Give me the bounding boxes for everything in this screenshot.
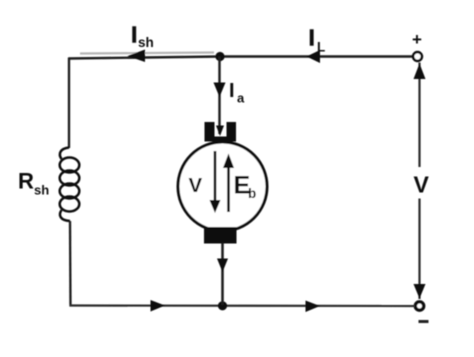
node bottom junction [218,301,227,310]
svg-text:a: a [237,91,245,106]
svg-text:I: I [229,80,235,102]
wire top-left segment [69,53,221,59]
node top junction [215,52,224,61]
svg-text:+: + [412,30,422,49]
terminal negative [415,302,423,310]
svg-text:V: V [414,172,430,198]
arrow bottom-right [306,301,321,313]
arrow down toward - [414,284,426,299]
svg-text:sh: sh [34,183,49,198]
armature M1 motor body [178,142,267,231]
wire left lower [69,221,72,307]
brush top [205,122,237,142]
wire right upper [418,63,420,168]
arrow up toward + [414,64,426,80]
wire left upper [68,58,70,149]
arrow bottom-left [151,300,166,312]
label minus [419,320,429,323]
inductor R_sh shunt field coil [60,148,80,222]
svg-text:V: V [189,174,203,197]
arrow I_sh [128,50,146,63]
label R_sh [18,169,49,198]
svg-text:sh: sh [138,35,154,50]
wire right lower [418,199,420,300]
wire bottom [70,304,416,307]
arrow I_L [307,50,321,63]
svg-text:L: L [317,40,325,55]
label I_sh [131,22,154,51]
arrow into top brush [216,126,224,137]
arrow Eb direction up [223,154,234,213]
wire armature bottom [221,243,224,305]
terminal positive [413,52,422,61]
svg-text:I: I [309,25,315,51]
arrow on armature bottom wire [217,259,228,273]
label I_L [309,25,326,55]
wire top-right segment [220,55,414,57]
svg-text:R: R [18,169,34,194]
brush bottom [204,227,237,244]
wire armature top [218,57,220,135]
label I_a [229,80,245,106]
svg-text:b: b [248,186,256,201]
arrow V direction down [210,151,221,213]
arrow I_a [214,83,226,98]
svg-text:I: I [131,22,137,48]
label E_b [234,172,257,202]
